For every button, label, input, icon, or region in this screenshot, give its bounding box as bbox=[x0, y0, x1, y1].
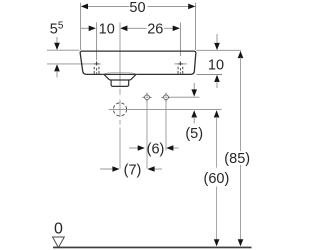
extension line tap hole right bbox=[179, 22, 181, 56]
column under water connection right bbox=[165, 102, 167, 151]
extension line tap hole left bbox=[96, 22, 98, 60]
dimension line 50 bbox=[88, 5, 130, 7]
dimension 5.5 down arrow bbox=[56, 37, 58, 44]
dimension 10 height up arrow bbox=[214, 75, 220, 82]
svg-text:0: 0 bbox=[54, 220, 63, 237]
drain circle bbox=[113, 103, 126, 116]
datum triangle bbox=[53, 237, 65, 248]
extension line right (basin right edge, width 50) bbox=[195, 3, 197, 50]
svg-text:(6): (6) bbox=[147, 141, 165, 157]
svg-text:50: 50 bbox=[129, 0, 145, 16]
column under water connection left bbox=[146, 102, 148, 169]
svg-text:26: 26 bbox=[147, 21, 163, 37]
dimension 10 tail left bbox=[81, 27, 89, 29]
svg-text:(60): (60) bbox=[204, 171, 230, 187]
bowl inner contour bbox=[103, 73, 138, 75]
arrow 26 pointing left bbox=[120, 26, 127, 32]
ground line bbox=[53, 247, 252, 249]
tap hole right cross bbox=[174, 63, 186, 65]
basin outline bbox=[80, 51, 196, 74]
water connection symbol left bbox=[145, 95, 150, 100]
svg-text:10: 10 bbox=[99, 21, 115, 37]
extension line basin bottom right bbox=[197, 74, 223, 76]
tap hole left cross bbox=[96, 62, 98, 66]
tap hole right drill dashed walls bbox=[177, 67, 179, 74]
bowl underside bbox=[104, 74, 136, 80]
dimension (85) column bbox=[238, 51, 244, 58]
dimension 5.5 up arrow bbox=[54, 64, 60, 71]
extension line tap hole axis left bbox=[47, 63, 101, 65]
dimension (5) down arrow bbox=[193, 83, 195, 90]
svg-text:(85): (85) bbox=[224, 151, 250, 167]
extension line left (basin left edge, width 50) bbox=[80, 3, 82, 50]
tap hole left drill dashed walls bbox=[93, 67, 95, 74]
arrow 50 right bbox=[188, 4, 195, 10]
extension line water connection row bbox=[171, 96, 200, 98]
drain stub bbox=[111, 80, 129, 87]
dimension (60) column bbox=[214, 110, 220, 117]
svg-text:10: 10 bbox=[208, 57, 224, 73]
dimension (5) up arrow bbox=[191, 110, 197, 117]
dimension 26 line bbox=[127, 27, 146, 29]
arrow 50 left bbox=[81, 4, 88, 10]
arrow 26 pointing right bbox=[173, 26, 180, 32]
arrow 10 pointing right bbox=[89, 26, 96, 32]
extension line basin top left bbox=[47, 49, 80, 51]
svg-text:(5): (5) bbox=[185, 126, 203, 142]
water connection symbol right bbox=[164, 95, 169, 100]
drain center horizontal axis bbox=[109, 109, 222, 111]
extension line basin top right bbox=[197, 49, 242, 51]
svg-text:(7): (7) bbox=[124, 162, 142, 178]
dimension 10 height down arrow bbox=[216, 34, 218, 44]
extension line drain center column bbox=[120, 21, 169, 23]
dimension (7) bbox=[100, 168, 113, 170]
dimension (6) bbox=[129, 147, 138, 149]
